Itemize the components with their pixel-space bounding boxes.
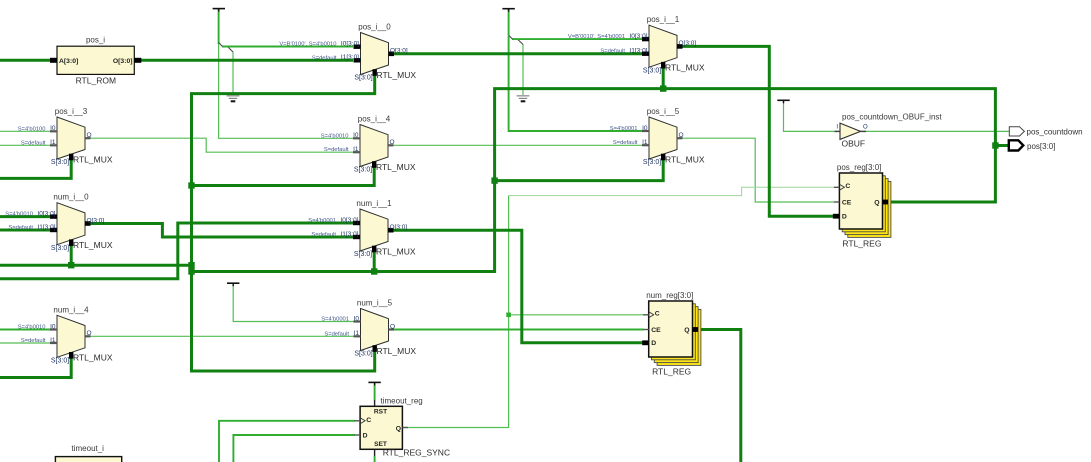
- svg-text:S=default: S=default: [311, 232, 336, 238]
- svg-text:S=default: S=default: [8, 225, 33, 231]
- svg-text:I1[3:0]: I1[3:0]: [340, 231, 358, 238]
- wire net num_i__4.O to num_i__5.I1: [91, 335, 354, 337]
- svg-text:S=4'b0001: S=4'b0001: [321, 317, 349, 323]
- wire bus num_i__0.I1 input: [0, 229, 50, 232]
- svg-text:S=4'b0001: S=4'b0001: [610, 126, 638, 132]
- timeout_reg RST port stub: [374, 400, 375, 406]
- svg-text:pos_i__1: pos_i__1: [647, 15, 680, 24]
- svg-text:S[3:0]: S[3:0]: [354, 251, 372, 258]
- svg-text:I1: I1: [354, 330, 360, 337]
- svg-text:D: D: [651, 340, 656, 347]
- ground ground near pos_i__0: [227, 95, 240, 102]
- mux num_i__5 (RTL_MUX): [321, 299, 416, 358]
- svg-text:pos[3:0]: pos[3:0]: [1027, 142, 1055, 151]
- svg-text:RTL_MUX: RTL_MUX: [377, 346, 417, 356]
- svg-text:pos_i: pos_i: [86, 35, 105, 44]
- wire bus num_i__0.O to num_i__1.I1: [85, 224, 353, 238]
- svg-text:S[3:0]: S[3:0]: [354, 167, 372, 174]
- wire bus pos_i__1.O to pos_reg.D: [683, 46, 834, 216]
- svg-text:S[3:0]: S[3:0]: [51, 358, 69, 365]
- wire clock net branch to num_reg.C: [509, 314, 644, 316]
- svg-text:I0[3:0]: I0[3:0]: [341, 41, 359, 48]
- wire net pos_i__5.O to pos_reg.CE: [683, 138, 834, 202]
- svg-text:RTL_REG: RTL_REG: [842, 239, 881, 249]
- svg-text:I1[3:0]: I1[3:0]: [37, 224, 55, 231]
- mux num_i__4 (RTL_MUX): [18, 305, 113, 364]
- svg-text:pos_i__5: pos_i__5: [647, 107, 680, 116]
- svg-text:I0[3:0]: I0[3:0]: [340, 217, 358, 224]
- wire net pos_i__3.O to pos_i__4.I1: [89, 138, 354, 152]
- power/constant tie-bar const for OBUF: [777, 100, 789, 104]
- power/constant tie-bar const near pos_i__0: [213, 8, 225, 12]
- wire net pos_i__4.O to pos_i__5.I1: [393, 144, 643, 146]
- wire constant net to pos_i__5.I0: [509, 36, 643, 131]
- wire bus pos_reg.Q feedback: [192, 89, 996, 272]
- svg-text:S=4'b0010: S=4'b0010: [5, 212, 33, 218]
- wire bus pos_i__0.S to select trunk: [192, 74, 375, 371]
- svg-text:S=4'b0001: S=4'b0001: [308, 218, 336, 224]
- mux num_i__0 (RTL_MUX): [5, 193, 113, 252]
- svg-text:S=4'b0100: S=4'b0100: [18, 126, 46, 132]
- svg-text:I1: I1: [50, 337, 56, 344]
- svg-text:O: O: [679, 132, 684, 139]
- svg-text:O[3:0]: O[3:0]: [113, 58, 133, 65]
- svg-text:I0: I0: [354, 315, 360, 322]
- svg-text:CE: CE: [842, 200, 852, 207]
- wire timeout_reg C input net: [219, 421, 355, 462]
- svg-text:O[3:0]: O[3:0]: [390, 224, 408, 231]
- svg-text:S[3:0]: S[3:0]: [354, 75, 372, 82]
- svg-text:O: O: [87, 330, 92, 337]
- svg-text:S=default: S=default: [21, 338, 46, 344]
- wire bus num_i__0.I0 input: [0, 215, 50, 218]
- junction pos_i__1.S on Q feedback bus: [660, 85, 666, 91]
- junction pos port tap on Q bus: [992, 142, 998, 148]
- wire timeout_reg RST riser: [374, 385, 376, 400]
- svg-text:S=default: S=default: [312, 55, 337, 61]
- register pos_reg[3:0] (RTL_REG): [833, 163, 891, 249]
- svg-text:I1[3:0]: I1[3:0]: [341, 54, 359, 61]
- wire bus num_i__0.S drop: [70, 241, 73, 265]
- svg-text:O: O: [87, 132, 92, 139]
- wire num_i__4 I1 input net: [0, 342, 51, 344]
- junction select line end at trunk: [188, 262, 194, 268]
- register timeout_reg (RTL_REG_SYNC): [355, 397, 451, 458]
- ROM pos_i (RTL_ROM): [50, 35, 141, 85]
- svg-text:num_i__0: num_i__0: [53, 193, 89, 202]
- svg-text:O[3:0]: O[3:0]: [679, 40, 697, 47]
- wire pos_i__3 I0 input net: [0, 130, 54, 132]
- svg-text:I1: I1: [353, 146, 359, 153]
- hop diagonal pos_i__1 constant: [509, 35, 513, 39]
- wire timeout_reg SET drop: [374, 456, 376, 462]
- wire bus select feed pos_i__3.S: [0, 156, 71, 178]
- wire bus num_reg.Q down: [698, 330, 741, 462]
- svg-text:O[3:0]: O[3:0]: [390, 48, 408, 55]
- svg-text:num_i__4: num_i__4: [53, 305, 89, 314]
- svg-text:S[3:0]: S[3:0]: [51, 245, 69, 252]
- wire bus select feed pos_i__5.S: [495, 155, 664, 181]
- svg-text:S[3:0]: S[3:0]: [51, 159, 69, 166]
- timeout_reg SET port stub: [374, 449, 375, 456]
- output port pos[3:0]: [1009, 140, 1056, 151]
- svg-text:pos_i__4: pos_i__4: [358, 115, 391, 124]
- svg-text:OBUF: OBUF: [842, 138, 866, 148]
- svg-text:I0: I0: [353, 132, 359, 139]
- svg-text:I0[3:0]: I0[3:0]: [37, 210, 55, 217]
- svg-text:S[3:0]: S[3:0]: [643, 67, 661, 74]
- svg-text:C: C: [655, 311, 660, 318]
- svg-text:I0: I0: [50, 125, 56, 132]
- power/constant tie-bar const timeout_reg RST: [368, 382, 380, 386]
- svg-text:O: O: [863, 124, 868, 130]
- wire constant net to pos_i__0.I0: [218, 9, 220, 44]
- wire net constant to pos_i__4.I0: [219, 44, 353, 138]
- wire net constant to num_i__5.I0: [233, 284, 353, 322]
- svg-text:I0: I0: [50, 323, 56, 330]
- svg-text:pos_countdown: pos_countdown: [1027, 128, 1083, 137]
- svg-text:num_i__5: num_i__5: [357, 299, 393, 308]
- svg-text:RTL_ROM: RTL_ROM: [76, 76, 116, 86]
- svg-text:pos_reg[3:0]: pos_reg[3:0]: [837, 163, 881, 172]
- mux num_i__1 (RTL_MUX): [308, 199, 416, 258]
- svg-text:I1: I1: [642, 139, 648, 146]
- svg-text:Q: Q: [396, 425, 401, 432]
- svg-text:C: C: [845, 183, 850, 190]
- output port pos_countdown: [1009, 127, 1082, 137]
- wire constant net to pos_i__1.I0 horizontal: [512, 38, 642, 40]
- wire num_i__4 I0 input net: [0, 329, 51, 331]
- wire bus input to pos_i.A: [0, 59, 50, 62]
- wire net constant to OBUF input: [784, 102, 835, 132]
- svg-text:pos_countdown_OBUF_inst: pos_countdown_OBUF_inst: [842, 113, 942, 122]
- wire net num_i__5.O to num_reg.CE: [394, 329, 644, 331]
- svg-text:D: D: [842, 214, 847, 221]
- wire timeout_reg D input net: [233, 435, 355, 462]
- junction select trunk branch pos_i__4: [188, 182, 194, 188]
- svg-text:CE: CE: [651, 327, 661, 334]
- wire bus num_i__1.S drop: [373, 248, 376, 272]
- svg-text:V=B'0100', S=4'b0010: V=B'0100', S=4'b0010: [279, 42, 336, 48]
- svg-text:I1: I1: [50, 139, 56, 146]
- power/constant tie-bar const for num_i__5.I0: [227, 282, 239, 286]
- wire ground riser near pos_i__1: [522, 44, 524, 95]
- svg-text:S[3:0]: S[3:0]: [643, 159, 661, 166]
- buffer pos_countdown_OBUF_inst (OBUF): [835, 113, 943, 149]
- svg-text:I0[3:0]: I0[3:0]: [629, 33, 647, 40]
- svg-text:I0: I0: [642, 125, 648, 132]
- wire bus num_i__1.O to num_reg.D: [389, 230, 644, 343]
- svg-text:V=B'0010', S=4'b0001: V=B'0010', S=4'b0001: [568, 34, 625, 40]
- svg-text:S[3:0]: S[3:0]: [354, 351, 372, 358]
- svg-text:pos_i__3: pos_i__3: [55, 107, 88, 116]
- svg-text:RTL_REG: RTL_REG: [652, 367, 691, 377]
- wire constant net to pos_i__0.I0 horizontal: [222, 46, 353, 48]
- junction clock branch to num_reg.C: [506, 313, 511, 318]
- wire constant net to pos_i__1.I0: [508, 9, 510, 36]
- junction num_i__1.S on select line: [371, 268, 377, 274]
- svg-text:RST: RST: [374, 409, 387, 416]
- wire net OBUF.O to pos_countdown port: [866, 130, 1009, 132]
- svg-text:RTL_MUX: RTL_MUX: [73, 240, 113, 250]
- junction pos_i__5.S feed on Q bus drop: [491, 177, 497, 183]
- svg-text:RTL_MUX: RTL_MUX: [73, 154, 113, 164]
- wire ground riser near pos_i__0: [232, 52, 234, 96]
- wire bus select line with num_i__0.S: [0, 264, 192, 267]
- svg-text:num_i__1: num_i__1: [356, 199, 392, 208]
- svg-text:RTL_MUX: RTL_MUX: [665, 154, 705, 164]
- svg-text:I1[3:0]: I1[3:0]: [629, 48, 647, 55]
- wire bus pos_i.O to pos_i__0.I1: [141, 59, 353, 62]
- svg-text:RTL_MUX: RTL_MUX: [376, 246, 416, 256]
- wire bus pos_i__0.O to pos_i__1.I1: [394, 52, 642, 55]
- svg-text:C: C: [366, 417, 371, 424]
- register num_reg[3:0] (RTL_REG): [642, 291, 701, 377]
- svg-text:RTL_MUX: RTL_MUX: [376, 162, 416, 172]
- timeout_reg RST riser black base: [374, 383, 375, 386]
- wire pos_i__3 I1 input net: [0, 144, 54, 146]
- svg-text:S=default: S=default: [324, 331, 349, 337]
- wire clock net to pos_reg.C: [509, 187, 834, 195]
- svg-text:RTL_MUX: RTL_MUX: [665, 63, 705, 73]
- svg-text:O: O: [390, 139, 395, 146]
- wire bus pos_i__1.S drop: [662, 63, 665, 89]
- junction num_i__0.S on select line: [68, 262, 74, 268]
- svg-text:A[3:0]: A[3:0]: [59, 58, 78, 65]
- wire bus stub to pos output port: [995, 144, 1008, 147]
- wire bus select feed pos_i__4.S: [192, 164, 375, 186]
- ROM timeout_i (partially visible): [55, 444, 121, 462]
- mux pos_i__4 (RTL_MUX): [321, 115, 416, 174]
- mux pos_i__3 (RTL_MUX): [18, 107, 113, 166]
- mux pos_i__1 (RTL_MUX): [568, 15, 705, 74]
- svg-text:timeout_reg: timeout_reg: [381, 397, 423, 406]
- junction select trunk branch lower: [188, 268, 194, 274]
- svg-text:S=default: S=default: [600, 49, 625, 55]
- ground ground near pos_i__1: [517, 95, 530, 102]
- svg-text:S=default: S=default: [21, 140, 46, 146]
- mux pos_i__0 (RTL_MUX): [279, 23, 416, 82]
- wire bus net to num_i__1.I0: [0, 223, 353, 279]
- svg-text:RTL_REG_SYNC: RTL_REG_SYNC: [383, 448, 450, 458]
- svg-text:RTL_MUX: RTL_MUX: [73, 353, 113, 363]
- svg-text:O[3:0]: O[3:0]: [87, 217, 105, 224]
- svg-text:S=4'b0010: S=4'b0010: [18, 325, 46, 331]
- svg-text:RTL_MUX: RTL_MUX: [377, 70, 417, 80]
- svg-text:num_reg[3:0]: num_reg[3:0]: [646, 291, 693, 300]
- wire bus select feed num_i__4.S: [0, 354, 71, 378]
- power/constant tie-bar const near pos_i__1: [502, 8, 514, 12]
- svg-text:timeout_i: timeout_i: [72, 444, 105, 453]
- svg-text:D: D: [363, 433, 368, 440]
- svg-text:pos_i__0: pos_i__0: [358, 23, 391, 32]
- svg-text:O: O: [390, 323, 395, 330]
- hop diagonal pos_i__0 constant: [219, 43, 223, 47]
- hop diagonal ground tap pos_i__0: [228, 47, 234, 53]
- svg-text:Q: Q: [684, 327, 689, 334]
- svg-text:S=4'b0010: S=4'b0010: [321, 133, 349, 139]
- svg-text:S=default: S=default: [613, 140, 638, 146]
- svg-text:Q: Q: [874, 200, 879, 207]
- hop diagonal ground tap pos_i__1: [518, 39, 524, 44]
- wire clock net vertical from timeout_reg.Q: [402, 196, 508, 428]
- svg-text:S=default: S=default: [324, 147, 349, 153]
- mux pos_i__5 (RTL_MUX): [610, 107, 705, 166]
